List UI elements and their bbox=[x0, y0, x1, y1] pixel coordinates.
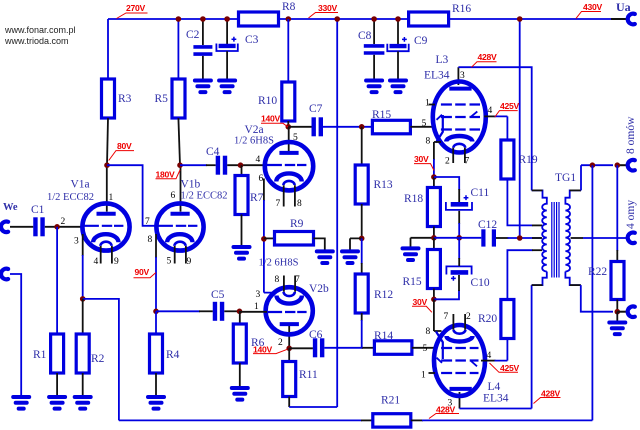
wire V1a cathode down bbox=[82, 234, 84, 256]
resistor R14 bbox=[374, 341, 412, 355]
svg-text:C8: C8 bbox=[358, 30, 372, 42]
wire V2b grid lead bbox=[240, 311, 268, 313]
ground right of R9 bbox=[317, 251, 333, 263]
svg-text:5: 5 bbox=[422, 119, 427, 129]
ground under C3 bbox=[219, 81, 235, 93]
wire R5 bottom lead bbox=[178, 118, 180, 165]
wire R6 to ground bbox=[239, 363, 241, 387]
svg-text:1/2 6H8S: 1/2 6H8S bbox=[234, 136, 274, 147]
node R22 top bbox=[615, 162, 621, 168]
wire R9 right lead to ground bbox=[314, 238, 325, 250]
resistor R22 bbox=[611, 262, 624, 300]
wire R6 top lead bbox=[239, 311, 241, 324]
terminal 4 omy bbox=[628, 232, 635, 243]
wire C10 top lead bbox=[458, 238, 460, 259]
wire secondary mid tap (4 ohm) bbox=[571, 237, 583, 239]
capacitor C6 bbox=[315, 338, 322, 357]
svg-text:R18: R18 bbox=[404, 193, 423, 205]
pentode L3 (EL34 upper) bbox=[429, 67, 486, 163]
resistor R6 bbox=[233, 324, 246, 363]
node V2a plate / 140V bbox=[286, 124, 292, 130]
wire L3 screen pin4 to R19 bbox=[484, 115, 495, 117]
svg-text:30V: 30V bbox=[414, 154, 429, 164]
svg-text:R22: R22 bbox=[588, 266, 607, 278]
wire L3 cathode down bbox=[434, 142, 441, 160]
capacitor C4 bbox=[218, 156, 225, 175]
svg-text:7: 7 bbox=[276, 199, 281, 209]
wire R10 top lead bbox=[287, 19, 289, 82]
svg-text:8 omów: 8 omów bbox=[625, 116, 637, 154]
svg-text:C5: C5 bbox=[211, 289, 225, 301]
wire C2 bottom lead bbox=[202, 56, 204, 79]
wire R2 top lead bbox=[82, 299, 84, 334]
svg-text:4: 4 bbox=[94, 257, 99, 267]
capacitor C8 bbox=[364, 46, 385, 53]
node C4 / R7 / V2a grid bbox=[238, 162, 244, 168]
wire C9 bottom lead bbox=[397, 51, 399, 79]
node rail C3 bbox=[224, 16, 230, 22]
triode V1a bbox=[82, 165, 129, 263]
svg-text:330V: 330V bbox=[318, 3, 337, 13]
wire rail after R8 (330V) bbox=[278, 18, 408, 20]
svg-text:2: 2 bbox=[61, 217, 66, 227]
primary top step bbox=[532, 190, 547, 198]
wire R3 bottom lead bbox=[107, 118, 108, 165]
node V1b plate / 180V / R5 bbox=[177, 162, 183, 168]
svg-text:9: 9 bbox=[114, 257, 119, 267]
resistor R21 bbox=[373, 414, 411, 427]
svg-text:C6: C6 bbox=[309, 329, 323, 341]
wire B+ drop to transformer centre tap bbox=[519, 19, 521, 238]
svg-text:R12: R12 bbox=[374, 289, 393, 301]
capacitor C12 bbox=[483, 229, 494, 246]
svg-text:R16: R16 bbox=[452, 3, 471, 15]
svg-text:V1b: V1b bbox=[181, 179, 201, 191]
wire R12 top lead bbox=[361, 238, 363, 264]
pentode L4 (EL34 lower, inverted) bbox=[429, 314, 486, 409]
svg-text:425V: 425V bbox=[500, 363, 519, 373]
wire secondary bottom to ground node bbox=[581, 285, 613, 312]
wire C5 to V2b grid node bbox=[224, 310, 239, 312]
ground at output bbox=[609, 323, 625, 335]
svg-text:90V: 90V bbox=[135, 267, 150, 277]
wire C11 bottom lead bbox=[458, 211, 460, 224]
svg-text:R13: R13 bbox=[374, 179, 393, 191]
svg-text:R2: R2 bbox=[91, 353, 105, 365]
wire R7 top lead bbox=[241, 165, 243, 175]
resistor R8 (series in rail) bbox=[239, 12, 279, 26]
wire V1b plate node to C4 bbox=[180, 164, 207, 166]
svg-text:C7: C7 bbox=[309, 103, 323, 115]
node L4 cathode 30V bbox=[431, 297, 437, 303]
wire R4 lead bbox=[155, 311, 157, 334]
resistor R4 bbox=[150, 334, 163, 373]
wire node to C10 bottom bbox=[434, 290, 459, 299]
svg-text:R5: R5 bbox=[155, 93, 169, 105]
node L3 cathode 30V bbox=[431, 174, 437, 180]
resistor R11 bbox=[283, 362, 296, 397]
capacitor C7 bbox=[314, 117, 321, 136]
svg-text:7: 7 bbox=[145, 217, 150, 227]
wire V2a plate node to C7 bbox=[288, 126, 311, 128]
wire C4 to V2a grid bbox=[227, 164, 265, 166]
ground under R1 bbox=[49, 397, 65, 409]
wire R19 to UL tap bbox=[507, 179, 532, 225]
core bbox=[552, 202, 559, 278]
node rail R10 bbox=[286, 16, 292, 22]
resistor R16 (series in rail) bbox=[409, 12, 449, 26]
wire C7 to R15/R13 node bbox=[323, 126, 372, 128]
svg-text:We: We bbox=[3, 202, 18, 213]
svg-text:C11: C11 bbox=[471, 187, 490, 199]
svg-text:8: 8 bbox=[148, 235, 153, 245]
terminal We ground side bbox=[1, 269, 8, 280]
svg-text:1: 1 bbox=[425, 99, 430, 109]
svg-text:1: 1 bbox=[254, 302, 259, 312]
wire R10 bottom lead bbox=[287, 121, 289, 127]
capacitor C3 (electrolytic) bbox=[216, 37, 237, 51]
ground under R6 bbox=[232, 388, 248, 400]
resistor R2 bbox=[76, 334, 89, 373]
wire node to C12 bbox=[434, 237, 481, 239]
svg-text:425V: 425V bbox=[500, 101, 519, 111]
wire R3 drop from rail bbox=[107, 19, 109, 79]
svg-text:8: 8 bbox=[426, 327, 431, 337]
svg-text:C10: C10 bbox=[471, 277, 490, 289]
svg-text:4: 4 bbox=[487, 351, 492, 361]
svg-text:1/2 6H8S: 1/2 6H8S bbox=[259, 258, 299, 269]
node R22 / secondary / ground bbox=[615, 309, 621, 315]
wire 8 ohm output line bbox=[581, 164, 613, 166]
node rail R5 bbox=[176, 16, 182, 22]
svg-text:270V: 270V bbox=[126, 3, 145, 13]
svg-text:R4: R4 bbox=[166, 349, 180, 361]
svg-text:C3: C3 bbox=[245, 34, 259, 46]
ground at R18 foot bbox=[403, 248, 419, 260]
wire rail after R16 (430V) to Ua bbox=[448, 18, 613, 20]
svg-text:2: 2 bbox=[278, 338, 283, 348]
wire R9 left lead bbox=[264, 237, 275, 239]
wire We-ground down bbox=[10, 274, 21, 395]
svg-text:1: 1 bbox=[109, 193, 114, 203]
resistor R9 bbox=[275, 232, 314, 246]
wire V2b plate to C6 bbox=[289, 347, 313, 349]
svg-text:R14: R14 bbox=[374, 330, 393, 342]
wire C3 top lead bbox=[226, 19, 228, 44]
terminal We (input) bbox=[1, 222, 8, 233]
node C5 / R6 / V2b grid bbox=[237, 309, 243, 315]
resistor R15 (to L3 grid) bbox=[372, 120, 410, 134]
node rail C8 bbox=[371, 16, 377, 22]
svg-text:C12: C12 bbox=[478, 219, 497, 231]
node V1a cathode / R2 / feedback bbox=[80, 296, 86, 302]
capacitor C11 (electrolytic) bbox=[446, 195, 472, 210]
terminal Ua bbox=[628, 14, 635, 25]
resistor R19 bbox=[501, 140, 514, 179]
svg-text:www.trioda.com: www.trioda.com bbox=[4, 36, 69, 46]
transformer TG1 bbox=[532, 190, 581, 285]
svg-text:6: 6 bbox=[171, 191, 176, 201]
wire ground stub bbox=[350, 238, 362, 250]
ground under R4 bbox=[148, 397, 164, 409]
wire Ua black stub bbox=[611, 18, 628, 20]
svg-text:C9: C9 bbox=[414, 35, 428, 47]
wire 330V drop to R11 bottom (x=337) bbox=[336, 19, 338, 407]
capacitor C10 (electrolytic) bbox=[446, 266, 471, 280]
svg-text:R11: R11 bbox=[299, 369, 318, 381]
svg-text:L4: L4 bbox=[488, 381, 501, 393]
wire C8 top lead bbox=[373, 19, 375, 44]
wire cathode node to C11 bbox=[434, 177, 459, 190]
svg-text:5: 5 bbox=[167, 257, 172, 267]
node V2b plate / 140V / C6 / R11 bbox=[286, 346, 292, 352]
svg-text:1: 1 bbox=[421, 371, 426, 381]
svg-text:R15: R15 bbox=[403, 276, 422, 288]
svg-text:R3: R3 bbox=[118, 93, 132, 105]
resistor R20 bbox=[501, 300, 514, 339]
terminal 8 omow bbox=[628, 160, 635, 171]
node B+ centre tap bbox=[517, 235, 523, 241]
svg-text:8: 8 bbox=[426, 137, 431, 147]
node V1a plate / 80V bbox=[104, 162, 110, 168]
resistor R3 bbox=[102, 79, 115, 118]
wire C3 bottom lead bbox=[226, 51, 228, 79]
svg-text:5: 5 bbox=[293, 133, 298, 143]
resistor R10 bbox=[282, 82, 295, 121]
node C7 / R15 / R13 bbox=[359, 124, 365, 130]
svg-text:www.fonar.com.pl: www.fonar.com.pl bbox=[4, 25, 76, 35]
ground stub left of R18 bbox=[411, 238, 434, 247]
ground under C8 bbox=[366, 81, 382, 93]
wire R7 to ground bbox=[241, 215, 243, 247]
wire R5 top lead bbox=[177, 19, 179, 79]
wire R20 to UL tap lower bbox=[507, 250, 532, 299]
wire V2a cathode down to R9/V2b bbox=[263, 179, 265, 202]
resistor R5 bbox=[172, 79, 185, 118]
node V1b cathode / C5 / R4 bbox=[153, 309, 159, 315]
wire C1 to grid V1a bbox=[45, 226, 83, 228]
ground at input bbox=[13, 397, 29, 409]
wire V1a plate to V1b grid bbox=[107, 165, 158, 226]
svg-text:R15: R15 bbox=[372, 109, 391, 121]
secondary top step bbox=[565, 190, 581, 198]
svg-text:4: 4 bbox=[256, 155, 261, 165]
svg-text:180V: 180V bbox=[156, 170, 175, 180]
svg-text:Ua: Ua bbox=[616, 0, 631, 14]
wire L4 cathode lead bbox=[434, 299, 442, 331]
wire R12 bottom to C6/R14 line bbox=[361, 313, 363, 321]
wire V1b cathode down bbox=[155, 234, 157, 258]
svg-text:30V: 30V bbox=[413, 297, 428, 307]
resistor R12 bbox=[355, 274, 368, 313]
node cathodes / R9 bbox=[261, 236, 267, 242]
wire R22 bottom lead bbox=[616, 300, 618, 312]
svg-text:7: 7 bbox=[295, 275, 300, 285]
ground under R2 bbox=[75, 397, 91, 409]
svg-text:EL34: EL34 bbox=[483, 393, 509, 405]
wire R18 top lead bbox=[433, 177, 435, 188]
svg-text:140V: 140V bbox=[253, 344, 272, 354]
wire ground lead bbox=[616, 312, 618, 321]
svg-text:4 omy: 4 omy bbox=[625, 200, 637, 229]
wire R22 drop bbox=[616, 165, 618, 251]
wire cathode junction to C5 bbox=[156, 310, 200, 312]
resistor R13 bbox=[355, 165, 368, 204]
wire We to C1 bbox=[10, 226, 33, 228]
node rail C9 bbox=[395, 16, 401, 22]
svg-text:R1: R1 bbox=[33, 349, 47, 361]
wire R13 top lead bbox=[361, 127, 363, 165]
svg-text:5: 5 bbox=[423, 344, 428, 354]
triode V2b (inverted) bbox=[266, 276, 313, 349]
wire C12 to centre tap bbox=[496, 237, 509, 239]
wire 270V top rail bbox=[108, 18, 239, 20]
svg-text:428V: 428V bbox=[478, 52, 497, 62]
svg-text:C4: C4 bbox=[206, 146, 220, 158]
svg-text:C1: C1 bbox=[31, 204, 45, 216]
svg-text:V1a: V1a bbox=[71, 179, 90, 191]
svg-text:140V: 140V bbox=[261, 114, 280, 124]
ground under C9 bbox=[390, 81, 406, 93]
svg-text:EL34: EL34 bbox=[424, 70, 450, 82]
wire feedback line down to bottom rail bbox=[591, 165, 593, 420]
svg-text:9: 9 bbox=[187, 257, 192, 267]
wire R1 drop bbox=[56, 227, 58, 334]
wire C8 bottom lead bbox=[373, 55, 375, 79]
triode V1b bbox=[156, 165, 203, 263]
node rail B+ drop bbox=[517, 16, 523, 22]
ground under C2 bbox=[195, 81, 211, 93]
ground under R7 bbox=[234, 247, 250, 259]
svg-text:V2a: V2a bbox=[245, 124, 264, 136]
bottom rail right of R21 bbox=[411, 419, 423, 421]
wire feedback to bottom rail bbox=[83, 299, 119, 421]
triode V2a bbox=[265, 127, 313, 207]
wire R15 lower top lead bbox=[433, 238, 435, 250]
resistor R1 bbox=[51, 334, 64, 373]
wire C2 top lead bbox=[202, 19, 204, 45]
wire R4 to ground bbox=[155, 373, 157, 396]
wire R18 bottom lead bbox=[433, 227, 435, 238]
node feedback takeoff bbox=[590, 162, 596, 168]
secondary winding bbox=[565, 198, 570, 272]
wire R2 to ground bbox=[82, 373, 84, 396]
svg-text:R21: R21 bbox=[381, 395, 400, 407]
wire L4 screen pin4 to R20 bbox=[481, 360, 496, 362]
svg-text:L3: L3 bbox=[436, 54, 449, 66]
primary winding bbox=[542, 198, 547, 272]
svg-text:80V: 80V bbox=[117, 141, 132, 151]
svg-text:TG1: TG1 bbox=[555, 172, 576, 184]
bottom rail left of R21 bbox=[119, 419, 362, 421]
svg-text:3: 3 bbox=[256, 290, 261, 300]
svg-text:4: 4 bbox=[488, 106, 493, 116]
svg-text:C2: C2 bbox=[186, 29, 200, 41]
node rail R11 riser bbox=[334, 16, 340, 22]
wire R13 bottom lead bbox=[361, 204, 363, 238]
svg-text:3: 3 bbox=[460, 71, 465, 81]
svg-text:R19: R19 bbox=[519, 154, 538, 166]
wire R11 bottom to 330V riser bbox=[288, 397, 290, 408]
resistor R15 lower bbox=[427, 250, 440, 289]
terminal common bbox=[628, 306, 635, 317]
wire secondary top to 8ohm line bbox=[580, 165, 582, 190]
svg-text:7: 7 bbox=[465, 157, 470, 167]
node R13 / R12 / ground bbox=[359, 236, 365, 242]
capacitor C1 bbox=[35, 217, 42, 236]
wire R15 lower bottom lead bbox=[433, 289, 435, 300]
svg-text:1/2 ECC82: 1/2 ECC82 bbox=[47, 192, 94, 203]
node rail C2 bbox=[200, 16, 206, 22]
capacitor C5 bbox=[215, 302, 222, 321]
svg-text:V2b: V2b bbox=[309, 283, 329, 295]
svg-text:1/2 ECC82: 1/2 ECC82 bbox=[181, 191, 228, 202]
ground at R13 foot bbox=[342, 251, 358, 263]
resistor R18 bbox=[427, 188, 440, 227]
resistor R7 bbox=[235, 176, 248, 215]
svg-text:R8: R8 bbox=[282, 1, 296, 13]
wire C6 to R14 bbox=[324, 347, 363, 349]
node C11 / C10 bbox=[456, 235, 462, 241]
capacitor C9 (electrolytic) bbox=[387, 37, 408, 51]
wire R1 to ground bbox=[56, 373, 58, 396]
node C1/R1/grid junction bbox=[54, 224, 60, 230]
svg-text:R9: R9 bbox=[290, 218, 304, 230]
svg-text:7: 7 bbox=[444, 312, 449, 322]
node R18 / R15 lower bbox=[431, 235, 437, 241]
svg-text:R10: R10 bbox=[258, 95, 277, 107]
secondary bottom step bbox=[565, 272, 580, 286]
svg-text:2: 2 bbox=[445, 157, 450, 167]
svg-text:428V: 428V bbox=[541, 388, 560, 398]
svg-text:8: 8 bbox=[275, 275, 280, 285]
wire R14 to L4 grid bbox=[412, 347, 435, 349]
svg-text:2: 2 bbox=[466, 312, 471, 322]
svg-text:R7: R7 bbox=[250, 192, 264, 204]
wire C9 top lead bbox=[397, 19, 399, 44]
svg-text:430V: 430V bbox=[583, 2, 602, 12]
primary bottom step bbox=[532, 272, 547, 286]
svg-text:6: 6 bbox=[259, 174, 264, 184]
capacitor C2 bbox=[193, 47, 212, 54]
wire L4 plate to transformer bottom bbox=[460, 285, 532, 408]
wire L3 plate to transformer top bbox=[458, 67, 531, 190]
wire R15 to L3 grid bbox=[410, 126, 435, 128]
wire R11 top lead bbox=[288, 348, 290, 361]
svg-text:8: 8 bbox=[297, 199, 302, 209]
svg-text:R20: R20 bbox=[478, 313, 497, 325]
wire to common terminal bbox=[617, 311, 628, 313]
svg-text:3: 3 bbox=[74, 237, 79, 247]
